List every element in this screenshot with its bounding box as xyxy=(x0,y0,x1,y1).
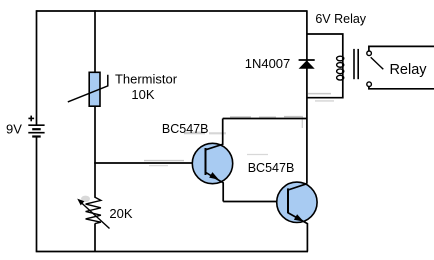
relay core line 1 xyxy=(353,49,355,79)
transistor Q1 emitter lead xyxy=(206,172,224,201)
diode D1 triangle xyxy=(299,60,315,68)
switch armature xyxy=(371,57,384,69)
thermistor TH1 body xyxy=(89,72,100,106)
transistor Q1 collector lead xyxy=(206,119,223,150)
svg-text:9V: 9V xyxy=(6,122,22,137)
transistor Q1 body xyxy=(192,143,232,183)
wire relay coil leads xyxy=(307,34,343,98)
decorative jpeg artifact smudges xyxy=(81,94,334,202)
transistor Q2 emitter arrow xyxy=(294,214,304,221)
wire switch bottom contact line xyxy=(369,86,434,89)
transistor Q2 base bar xyxy=(287,188,289,213)
switch bottom contact circle xyxy=(367,82,372,87)
svg-text:6V Relay: 6V Relay xyxy=(315,12,366,26)
battery BT1 9V xyxy=(28,125,44,136)
wire left vertical (battery top lead) xyxy=(36,10,38,124)
potentiometer arrow shaft xyxy=(80,202,110,229)
wire main right vertical (rail to Q2 collector) xyxy=(306,10,308,184)
transistor Q2 body xyxy=(277,182,317,222)
potentiometer arrowhead xyxy=(77,199,84,206)
relay coil L1 winding loops xyxy=(337,56,344,80)
wire switch top contact line xyxy=(369,46,434,51)
svg-text:Thermistor: Thermistor xyxy=(115,72,178,87)
wire thermistor branch top xyxy=(94,10,96,72)
transistor Q1 emitter arrow xyxy=(209,172,219,180)
transistor Q1 base bar xyxy=(205,148,207,175)
svg-text:20K: 20K xyxy=(109,206,132,221)
switch top contact circle xyxy=(367,51,372,56)
wire bottom rail xyxy=(36,251,308,253)
wire Q1 emitter to Q2 base xyxy=(223,201,288,203)
transistor Q2 collector lead xyxy=(288,184,307,190)
svg-text:BC547B: BC547B xyxy=(248,161,295,175)
transistor Q2 emitter lead xyxy=(288,213,307,252)
svg-text:Relay: Relay xyxy=(389,62,427,78)
wire potentiometer to bottom rail xyxy=(94,223,96,251)
wire thermistor bottom to potentiometer xyxy=(94,106,96,198)
wire node junction to Q1 base xyxy=(94,162,205,164)
svg-text:10K: 10K xyxy=(131,87,154,102)
diode D1 1N4007 cathode bar xyxy=(299,59,315,61)
thermistor diagonal stroke xyxy=(68,75,108,102)
svg-text:1N4007: 1N4007 xyxy=(245,56,291,71)
wire Q1 collector to relay branch xyxy=(223,118,307,120)
potentiometer R1 20K zigzag xyxy=(86,197,101,223)
wire battery bottom lead xyxy=(36,137,38,252)
relay core line 2 xyxy=(357,49,359,79)
battery plus sign xyxy=(28,116,34,122)
wire top rail xyxy=(37,10,307,12)
svg-text:BC547B: BC547B xyxy=(162,122,209,136)
